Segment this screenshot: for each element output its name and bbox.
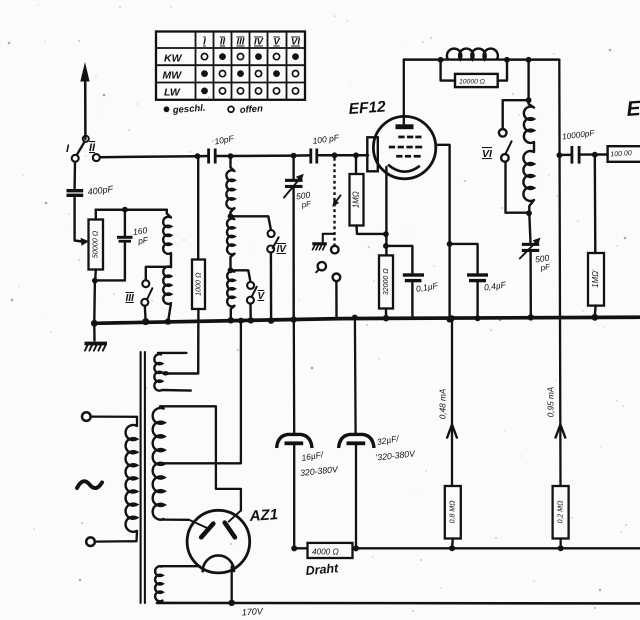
wire [357,226,386,234]
wire [231,254,235,271]
wire to pot wiper [75,197,89,246]
current arrow 0,95mA [547,386,566,438]
HV winding [153,408,165,520]
node [291,545,297,551]
wire [95,279,125,281]
wire tap to switch V [231,270,251,281]
svg-text:II: II [220,37,226,48]
wire [170,253,172,267]
node [504,57,510,63]
wire to ground [323,234,335,242]
svg-text:IV: IV [277,244,288,255]
svg-text:III: III [237,37,245,48]
primary terminal 1 [82,412,91,421]
ground small [312,242,327,250]
wire tap to switch III [146,267,171,280]
coil L3a [524,100,534,143]
EF12 cathode [388,165,420,172]
wire [197,156,199,259]
node [142,318,149,325]
capacitor 0,1µF [403,273,439,318]
svg-text:1MΩ: 1MΩ [352,191,361,208]
node [383,243,389,249]
wire [73,162,76,189]
variable capacitor 500pF osc [520,213,552,317]
svg-text:4000 Ω: 4000 Ω [312,548,339,557]
EF12 anode lead [403,60,405,125]
primary terminal 2 [86,537,95,546]
node [446,316,452,322]
wire [168,303,171,321]
node [528,314,534,320]
svg-text:10000 Ω: 10000 Ω [459,79,485,86]
jack Q [316,262,326,272]
wire to bus [93,280,96,321]
wire [249,304,252,320]
svg-text:100 00: 100 00 [610,150,632,158]
AC symbol [77,481,102,488]
switch III bottom contact [126,293,149,306]
node [592,152,598,158]
wire [144,306,147,320]
svg-text:Draht: Draht [305,561,340,578]
wire [198,155,208,158]
wire screen to cap [450,244,478,273]
node top-3 [291,153,297,159]
transformer core [141,352,145,603]
wire pot bottom [94,270,97,281]
svg-text:geschl.: geschl. [171,103,205,116]
node [558,545,564,551]
wire [293,319,296,434]
resistor 1MΩ grid [350,155,364,225]
wire grid lead [356,154,368,157]
EF12 screen lead [436,145,450,319]
switch VI top contact [499,129,507,137]
svg-text:EF12: EF12 [348,98,387,118]
current arrow 0,48mA [439,388,458,438]
node [383,315,389,321]
antenna [80,62,89,139]
rectifier heater winding [155,566,200,603]
wire [507,58,529,61]
node [352,315,358,321]
node [291,316,297,322]
node top-4 [332,152,338,158]
svg-text:170V: 170V [241,606,264,618]
jack terminal [333,274,341,282]
svg-text:KW: KW [164,53,183,65]
node [449,315,455,321]
wire [529,200,534,213]
wire to cap [386,246,413,273]
node pot bottom [92,278,98,284]
node [526,97,532,103]
svg-text:IV: IV [254,37,264,48]
wire to transformer tap [162,309,198,375]
primary winding [126,425,137,532]
svg-text:V: V [273,37,280,48]
tube AZ1 label [248,506,278,525]
switch V bottom contact [247,291,266,304]
AZ1 cathode lead [231,567,233,603]
switch IV arm [273,237,279,248]
wire B+ rail [157,603,640,618]
wire [335,154,357,157]
wire [91,417,137,426]
terminal circle (gang) [331,246,339,254]
wire [581,153,608,156]
electrolytic cap 32µF [339,433,417,548]
svg-text:0,48 mA: 0,48 mA [439,388,448,419]
node [228,317,234,323]
EF12 grid row2 [389,146,422,149]
capacitor 10pF [207,133,235,163]
switch VI bottom contact [482,148,509,162]
AZ1 filament [203,555,234,572]
node [449,545,455,551]
svg-text:1MΩ: 1MΩ [591,271,600,288]
node top-1 [195,153,201,159]
wire [217,155,231,158]
choke coil [447,49,498,60]
svg-text:VI: VI [482,148,493,160]
EF12 anode [396,124,414,129]
switch I contact [66,143,79,162]
svg-text:0,8 MΩ: 0,8 MΩ [450,500,457,524]
electrolytic cap 16µF [277,434,340,548]
bus wire (chassis) [91,317,640,326]
tube AZ1 envelope [187,510,250,573]
switch I/II common contact [83,136,89,142]
tube label E (clipped) [626,96,640,121]
resistor 0,2MΩ [553,486,569,539]
node [557,152,563,158]
node [438,57,444,63]
svg-text:VI: VI [291,37,300,48]
table legend [164,103,264,116]
svg-text:0,2 MΩ: 0,2 MΩ [557,500,564,524]
coil L3b [523,151,534,201]
wire [506,162,529,213]
wire switch arm [77,142,84,154]
coil L1a [163,210,171,254]
wire horiz [96,208,167,211]
svg-text:II: II [89,142,96,154]
EF12 grid row3 [396,155,421,158]
wire [294,547,307,549]
resistor 1MΩ #2 [588,155,604,306]
wire [594,306,597,317]
svg-text:1000 Ω: 1000 Ω [193,272,202,296]
node [526,57,532,63]
capacitor 160pF [117,210,149,281]
node screen junction [447,241,453,247]
AZ1 anode right [225,511,241,538]
svg-text:EB: EB [626,96,640,121]
switch IV bottom contact [267,244,287,255]
tube EF12 label [348,98,387,118]
node [248,317,254,323]
HV top lead [160,406,241,510]
wire [559,154,570,157]
wire [533,142,535,152]
capacitor 10000pF [562,128,596,163]
EF12 grid box [367,137,378,171]
svg-text:LW: LW [164,87,181,99]
wire pot top [95,210,97,220]
node [526,210,532,216]
switch III top contact [142,280,149,287]
capacitor 100pF [309,132,340,163]
wire [231,154,294,157]
AZ1 anode left [189,520,214,538]
node [229,600,235,606]
svg-text:I: I [203,37,206,48]
resistor 1000Ω [192,260,205,310]
node 160pF top [122,207,128,213]
EF12 grid row1 [398,136,421,139]
svg-text:III: III [126,293,135,304]
potentiometer 50000Ω [89,220,104,270]
heater winding EF12 [154,353,190,391]
node [591,314,598,321]
node tap [228,213,234,219]
node cathode junction [383,231,389,237]
wire [95,531,137,542]
svg-text:50000 Ω: 50000 Ω [91,230,100,258]
wire [385,309,387,318]
wire anode rail [404,58,441,61]
wire [451,539,454,549]
node [238,318,244,324]
wire [527,60,529,101]
switch V arm [252,287,257,297]
wire [270,253,273,320]
HV bottom lead [162,518,188,521]
switch II contact [89,142,100,161]
wire [231,208,235,216]
wire [294,154,310,157]
variable capacitor 500pF [284,156,313,319]
switch VI arm [506,141,512,153]
capacitor 400pF [67,184,115,197]
wire top rail left [100,156,197,157]
wire [231,306,235,320]
dashed gang line [332,158,340,246]
wire [318,154,334,157]
tube EF12 envelope [373,116,435,178]
node [268,317,274,323]
node [475,315,481,321]
coil L2b [227,216,235,254]
resistor 0,8MΩ [445,486,461,539]
coil L1b [163,267,171,304]
wire to switch VI [503,100,529,129]
ground [85,325,108,351]
node [353,545,359,551]
wire B+ vertical [559,60,560,549]
coil L2a [226,156,234,209]
node tap2 [228,267,234,273]
HV center tap [162,320,241,463]
wire cathode RC [385,234,387,256]
svg-text:AZ1: AZ1 [248,506,278,525]
wire [353,547,640,549]
resistor 100000Ω [608,146,640,162]
coil L2c [227,270,234,306]
resistor 10000Ω [441,60,507,88]
wire [335,281,338,317]
svg-text:MW: MW [163,70,183,82]
svg-text:offen: offen [239,103,263,116]
wire tap to switch IV [231,216,271,230]
switch III arm [147,288,152,299]
node top-2 [228,153,234,159]
wire [354,318,357,433]
band switch table [156,32,305,100]
node [165,318,171,324]
svg-text:32000 Ω: 32000 Ω [383,268,390,295]
switch V top contact [247,282,254,289]
resistor 4000Ω Draht [305,543,352,578]
EF12 cathode lead [385,167,387,234]
svg-text:0,95 mA: 0,95 mA [547,386,556,417]
wire under choke [441,58,507,60]
capacitor 0,4µF [467,273,507,318]
resistor 32000Ω [379,255,393,308]
wire [529,58,560,61]
node top-5 [353,152,359,158]
switch IV top contact [268,230,275,237]
wire screen feed 1 [451,319,453,487]
